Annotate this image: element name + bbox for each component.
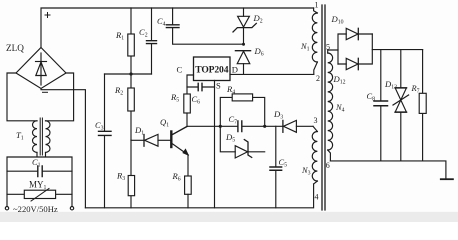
svg-text:R5: R5 [170, 92, 179, 103]
svg-text:N4: N4 [335, 103, 345, 113]
svg-text:C: C [177, 65, 183, 75]
terminal right [70, 207, 73, 210]
svg-text:R2: R2 [114, 85, 123, 96]
svg-text:C4: C4 [157, 17, 166, 27]
varistor MY1 [7, 180, 72, 202]
wire output rail [330, 161, 446, 179]
svg-text:D1: D1 [134, 125, 144, 136]
winding N3 [301, 126, 317, 184]
capacitor C3 [95, 74, 111, 208]
diode D12 [333, 34, 373, 85]
svg-text:4: 4 [315, 193, 319, 202]
node loop right [263, 125, 266, 128]
svg-text:MY1: MY1 [29, 180, 47, 191]
wire D pin to primary [230, 73, 314, 75]
capacitor C1 [7, 158, 72, 177]
winding N1 [300, 8, 317, 74]
transformer core [322, 5, 325, 210]
svg-text:D6: D6 [254, 46, 264, 57]
svg-text:C2: C2 [139, 27, 148, 38]
diode D3 [273, 109, 296, 132]
node + [45, 13, 50, 18]
svg-text:D12: D12 [333, 74, 346, 85]
op-amp U1 TOP204 [194, 57, 231, 81]
svg-text:ZLQ: ZLQ [6, 43, 24, 53]
resistor R2 [114, 74, 134, 140]
svg-text:N1: N1 [300, 42, 310, 52]
svg-text:2: 2 [316, 74, 320, 83]
wire main feedback node [172, 126, 313, 135]
node loop left [219, 125, 222, 128]
svg-text:N3: N3 [301, 166, 311, 176]
svg-text:D10: D10 [331, 14, 344, 25]
diode D1 [131, 125, 170, 146]
diode D6 [235, 46, 263, 74]
wire output bus [372, 49, 422, 51]
transformer T1 [16, 118, 50, 155]
svg-text:D3: D3 [273, 109, 283, 120]
svg-text:6: 6 [326, 161, 330, 170]
wire top positive rail [41, 8, 314, 48]
svg-text:D5: D5 [225, 132, 235, 143]
zener D5 [220, 126, 264, 158]
wire divider mid [105, 73, 152, 75]
svg-text:C5: C5 [279, 158, 288, 168]
svg-text:5: 5 [326, 43, 330, 52]
ground [441, 178, 453, 180]
wire bridge minus to bottom rail [41, 89, 85, 208]
resistor R7 [411, 50, 427, 161]
svg-text:R1: R1 [115, 30, 124, 41]
transistor Q1 [160, 117, 188, 176]
scan band bottom [0, 212, 458, 222]
svg-text:3: 3 [314, 116, 318, 125]
wire T1 to input rails [7, 152, 72, 206]
winding N4 [328, 50, 345, 161]
capacitor C2 [139, 8, 157, 74]
resistor R1 [115, 8, 134, 74]
resistor R3 [116, 140, 135, 208]
svg-text:D2: D2 [253, 13, 263, 24]
svg-text:C8: C8 [367, 92, 376, 102]
svg-text:S: S [216, 81, 221, 91]
capacitor C5 [270, 126, 287, 208]
capacitor C4 [157, 8, 244, 44]
diode D10 [331, 14, 373, 64]
svg-text:C7: C7 [229, 115, 238, 125]
resistor R5 [170, 92, 190, 126]
svg-text:Q1: Q1 [160, 117, 169, 128]
capacitor C6 [187, 83, 215, 105]
wire S pin down [214, 81, 216, 208]
resistor R6 [172, 171, 192, 208]
svg-text:D: D [232, 64, 238, 74]
node R1 R2 junction [129, 72, 132, 75]
svg-text:C6: C6 [192, 95, 201, 105]
svg-text:R6: R6 [172, 171, 181, 182]
svg-text:R3: R3 [116, 171, 125, 182]
svg-text:C1: C1 [32, 158, 41, 168]
svg-text:T1: T1 [16, 130, 24, 141]
bridge rectifier ZLQ [16, 48, 66, 89]
svg-text:C3: C3 [95, 121, 104, 131]
capacitor C8 [367, 50, 388, 161]
svg-text:R7: R7 [411, 84, 420, 94]
wire C pin [187, 75, 194, 94]
terminal left [5, 207, 8, 210]
capacitor C7 [229, 115, 242, 132]
resistor R4 [220, 84, 264, 126]
zener D2 [233, 8, 263, 44]
svg-text:~220V/50Hz: ~220V/50Hz [13, 204, 58, 214]
svg-text:D13: D13 [384, 79, 397, 90]
svg-text:1: 1 [315, 1, 319, 10]
wire bridge left AC to T1 [7, 73, 37, 121]
wire bridge right AC to T1 [46, 73, 74, 121]
wire bottom rail [85, 184, 313, 208]
TVS D13 [384, 50, 409, 161]
svg-text:R4: R4 [226, 84, 235, 95]
node minus [43, 91, 48, 93]
node clamp junction [242, 43, 245, 46]
svg-text:TOP204: TOP204 [195, 65, 228, 76]
